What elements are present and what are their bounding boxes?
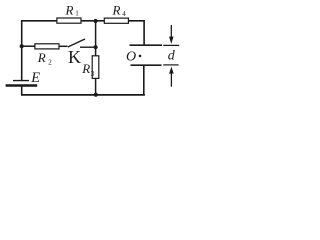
- resistor R4: [104, 2, 128, 23]
- svg-text:E: E: [30, 70, 40, 86]
- battery E short plate: [13, 80, 29, 82]
- wire bottom: [21, 94, 145, 96]
- svg-text:R: R: [81, 61, 90, 76]
- resistor R2: [35, 44, 59, 67]
- resistor R3: [81, 56, 99, 79]
- node top junction: [94, 19, 98, 23]
- wire right vertical to capacitor top plate: [143, 20, 145, 45]
- battery E long plate: [6, 84, 38, 86]
- svg-text:4: 4: [122, 10, 126, 18]
- dimension d up arrow: [169, 67, 174, 87]
- svg-text:K: K: [68, 47, 81, 67]
- svg-text:3: 3: [91, 70, 95, 78]
- capacitor bottom plate: [131, 64, 162, 66]
- dimension d bottom tick: [163, 64, 178, 66]
- svg-text:R: R: [37, 50, 46, 65]
- switch K blade: [68, 39, 85, 47]
- svg-text:R: R: [65, 2, 74, 17]
- dimension d down arrow: [169, 25, 174, 44]
- svg-text:O: O: [126, 49, 136, 64]
- node middle junction: [94, 45, 98, 49]
- wire top: [21, 20, 145, 22]
- node O point dot: [139, 55, 142, 58]
- svg-text:R: R: [112, 2, 121, 17]
- wire middle vertical branch: [95, 21, 97, 57]
- node bottom junction: [94, 93, 98, 97]
- wire R2 branch from left node: [22, 45, 36, 47]
- resistor R1: [57, 2, 81, 23]
- wire left vertical: [21, 20, 23, 80]
- battery E lower stub: [21, 86, 23, 96]
- capacitor top plate: [130, 44, 163, 46]
- dimension d top tick: [163, 44, 179, 46]
- svg-text:d: d: [168, 49, 176, 64]
- wire R3 to bottom: [95, 78, 97, 95]
- wire capacitor bottom plate to bottom wire: [143, 65, 145, 95]
- svg-text:1: 1: [75, 10, 79, 18]
- switch K fixed contact: [80, 46, 96, 48]
- svg-text:2: 2: [48, 58, 52, 66]
- wire R2 to switch pivot: [59, 45, 68, 47]
- node left junction: [20, 44, 24, 48]
